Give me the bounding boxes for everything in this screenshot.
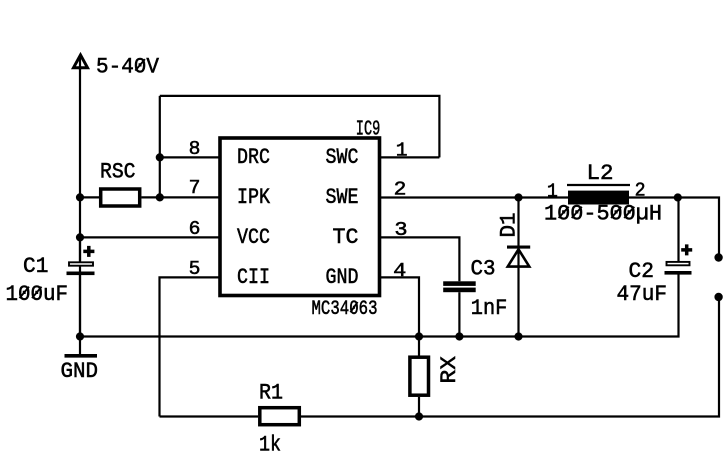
wire RSC right to pin7 [142, 196, 221, 198]
wire pin2 SWE [380, 196, 568, 198]
wire D1 [517, 198, 519, 337]
wire RX top [418, 337, 420, 356]
svg-text:1: 1 [547, 181, 558, 203]
node VCC [76, 233, 84, 241]
svg-text:7: 7 [189, 177, 201, 199]
node RX top [415, 332, 423, 340]
svg-text:TC: TC [333, 225, 359, 250]
wire pin1 SWC [380, 156, 439, 158]
svg-text:VCC: VCC [237, 225, 270, 250]
wire C1 top [79, 237, 81, 261]
node RSC left [76, 193, 84, 201]
svg-text:CII: CII [237, 265, 270, 290]
wire pin3 TC [380, 237, 459, 281]
node pin7 [156, 193, 164, 201]
svg-text:1nF: 1nF [471, 296, 508, 321]
wire pin5 CII [160, 277, 221, 416]
svg-text:C3: C3 [471, 257, 496, 282]
svg-text:1: 1 [396, 140, 408, 162]
svg-text:DRC: DRC [237, 145, 270, 170]
wire bottom rail right [301, 297, 719, 417]
wire C3 bottom [458, 292, 460, 336]
wire output top [678, 198, 719, 258]
ground stub [79, 337, 81, 355]
svg-text:3: 3 [394, 219, 407, 241]
svg-text:C2: C2 [629, 259, 655, 284]
wire top loop [160, 96, 440, 157]
capacitor C1 [67, 246, 95, 275]
wire C1 bottom [79, 275, 81, 337]
svg-text:R1: R1 [259, 381, 283, 406]
svg-text:SWC: SWC [326, 145, 359, 170]
node pin8 [156, 153, 164, 161]
node RX bottom [415, 412, 423, 420]
capacitor C2 [665, 244, 693, 274]
svg-text:L2: L2 [587, 161, 614, 186]
slashed-zero strokes for value labels [20, 59, 635, 312]
resistor R1 [260, 408, 300, 425]
svg-text:8: 8 [189, 138, 201, 160]
svg-text:100uF: 100uF [6, 282, 69, 307]
wire pin6 VCC [80, 236, 220, 238]
node C3 bottom [455, 332, 463, 340]
svg-text:RX: RX [437, 356, 462, 384]
wire ground rail [80, 275, 679, 337]
node D1 top [514, 193, 522, 201]
svg-text:GND: GND [61, 359, 99, 384]
svg-text:1k: 1k [259, 432, 281, 452]
diode D1 [507, 247, 530, 267]
svg-text:5: 5 [189, 258, 201, 280]
svg-text:2: 2 [394, 178, 407, 200]
svg-text:2: 2 [635, 180, 646, 202]
wire L2 right [629, 196, 678, 198]
wire pin8 DRC [160, 156, 220, 158]
wire pin4 GND [380, 277, 419, 336]
power supply arrow 5-40V [74, 55, 88, 70]
inductor L2 [567, 185, 630, 205]
wire bottom rail [160, 415, 259, 417]
node D1 bottom [514, 332, 522, 340]
resistor RX [410, 357, 429, 395]
svg-text:IPK: IPK [237, 185, 271, 210]
svg-text:D1: D1 [497, 213, 522, 238]
wire pin8 vertical [159, 96, 161, 197]
resistor RSC [101, 189, 140, 206]
svg-text:4: 4 [393, 260, 406, 282]
node L2 out [674, 193, 682, 201]
wire RSC left [80, 196, 99, 198]
svg-text:IC9: IC9 [356, 119, 381, 142]
svg-text:C1: C1 [23, 254, 48, 279]
ground [65, 354, 98, 358]
svg-text:SWE: SWE [326, 185, 359, 210]
node GND left [76, 332, 84, 340]
wire supply vertical [79, 66, 81, 337]
svg-text:MC34063: MC34063 [312, 298, 378, 321]
wire RX bottom [418, 397, 420, 417]
svg-text:5-40V: 5-40V [96, 54, 160, 79]
node out plus [714, 253, 722, 261]
svg-text:6: 6 [189, 218, 201, 240]
svg-text:47uF: 47uF [617, 282, 668, 307]
node out sense [714, 293, 722, 301]
wire C2 top [677, 198, 679, 262]
capacitor C3 [443, 281, 476, 292]
svg-text:RSC: RSC [100, 159, 136, 184]
svg-text:GND: GND [326, 265, 359, 290]
IC IC9 MC34063 [220, 138, 380, 296]
